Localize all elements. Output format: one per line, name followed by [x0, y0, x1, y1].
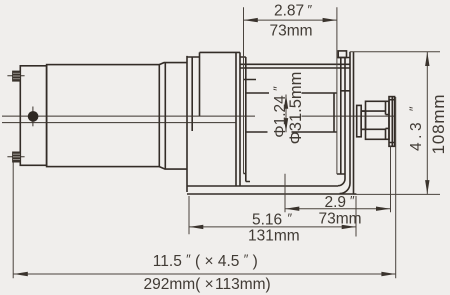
- svg-text:108mm: 108mm: [429, 94, 448, 155]
- svg-text:″: ″: [288, 211, 293, 226]
- svg-text:292mm( × 113mm): 292mm( × 113mm): [144, 276, 271, 293]
- svg-text:11.5 ″ ( × 4.5 ″ ): 11.5 ″ ( × 4.5 ″ ): [153, 252, 258, 271]
- svg-text:Φ31.5mm: Φ31.5mm: [287, 72, 305, 145]
- svg-text:131mm: 131mm: [248, 228, 300, 245]
- svg-text:5.16: 5.16: [252, 212, 282, 229]
- svg-text:2.9: 2.9: [325, 194, 347, 211]
- svg-text:″: ″: [308, 2, 313, 17]
- svg-text:″: ″: [350, 193, 355, 208]
- svg-text:73mm: 73mm: [270, 22, 313, 39]
- svg-text:73mm: 73mm: [319, 211, 362, 228]
- svg-text:2.87: 2.87: [274, 2, 304, 19]
